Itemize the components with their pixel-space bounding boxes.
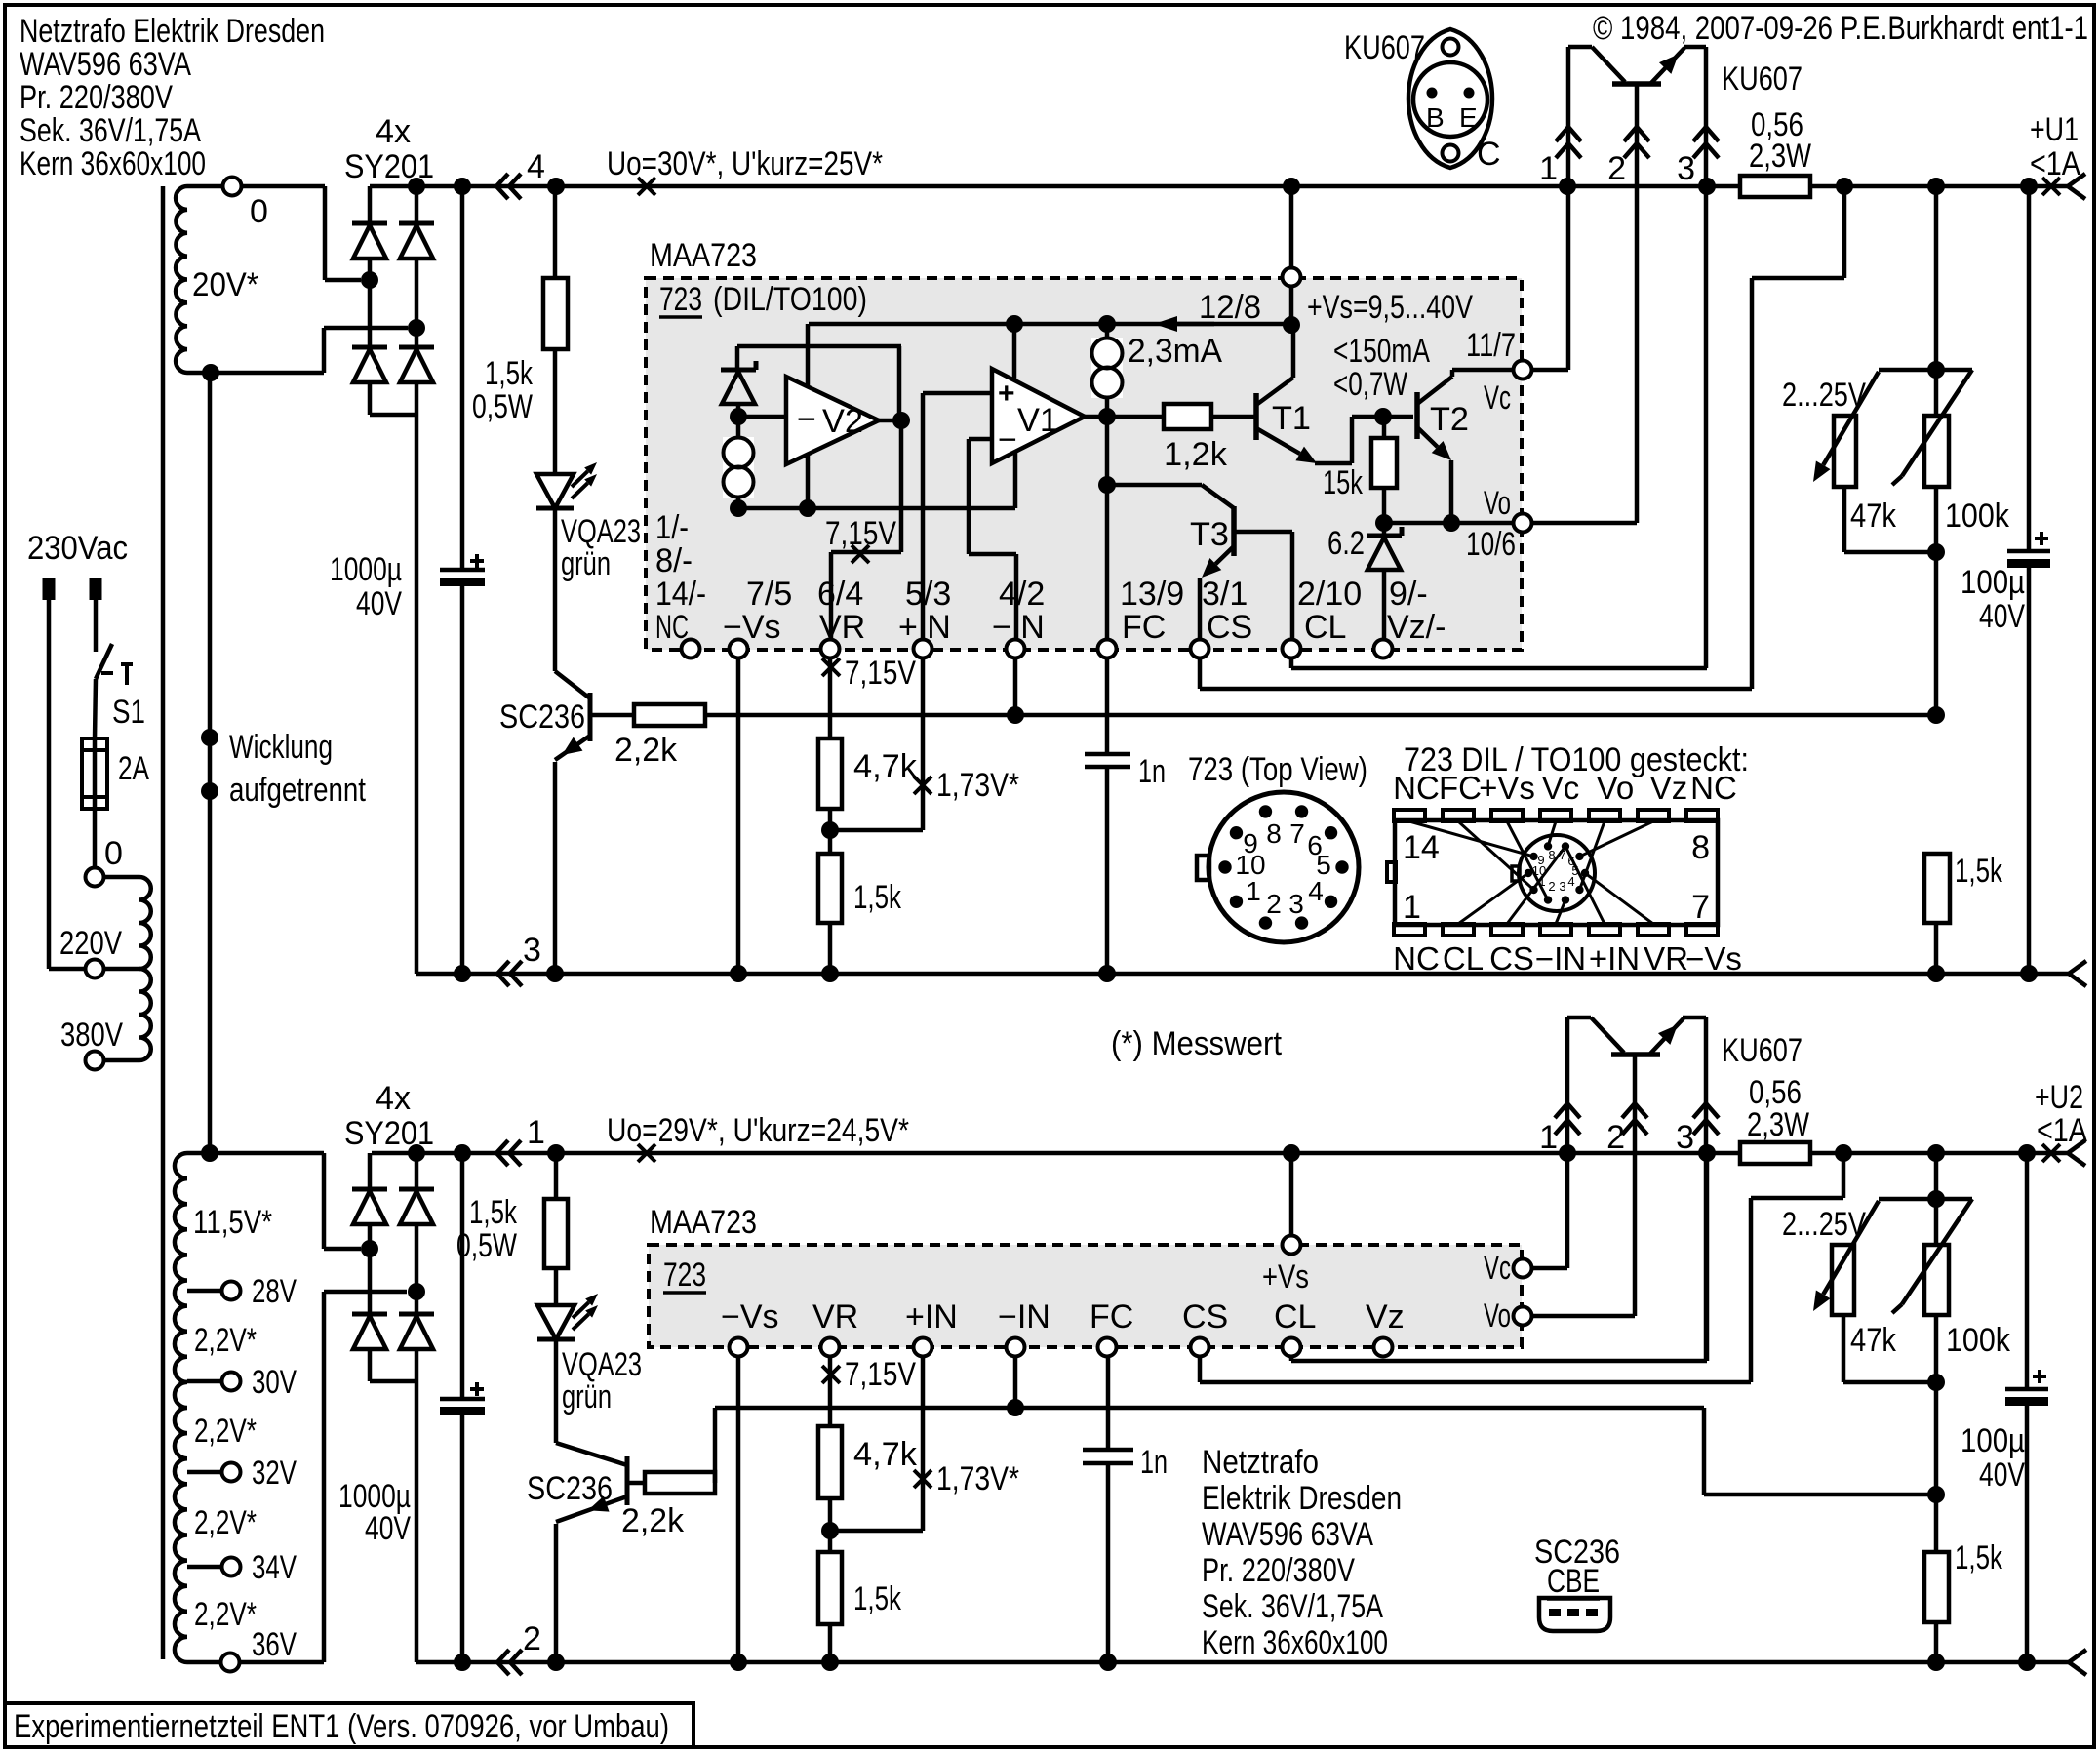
svg-text:5/3: 5/3 [905,576,951,613]
svg-text:<150mA: <150mA [1333,333,1430,370]
svg-text:CL: CL [1274,1298,1316,1335]
svg-text:Vo: Vo [1484,485,1511,522]
svg-text:9/-: 9/- [1389,576,1428,613]
svg-text:−: − [998,421,1017,458]
svg-text:4: 4 [1567,874,1574,889]
svg-text:2,2V*: 2,2V* [194,1596,257,1633]
svg-text:13/9: 13/9 [1120,576,1184,613]
svg-text:KU607: KU607 [1344,29,1425,66]
svg-text:4,7k: 4,7k [853,748,918,785]
svg-text:40V: 40V [356,585,402,622]
svg-text:47k: 47k [1850,498,1897,535]
svg-text:2...25V: 2...25V [1782,1206,1866,1243]
svg-text:1: 1 [1539,150,1558,187]
svg-text:Vc: Vc [1484,379,1511,417]
svg-text:Wicklung: Wicklung [229,729,333,766]
svg-text:2/10: 2/10 [1297,576,1362,613]
svg-text:14: 14 [1403,829,1440,866]
svg-text:MAA723: MAA723 [650,237,757,274]
svg-text:1/-: 1/- [655,509,689,546]
svg-text:C: C [1477,136,1501,173]
svg-text:+U1: +U1 [2030,111,2079,148]
svg-text:+Vs=9,5...40V: +Vs=9,5...40V [1307,289,1473,326]
svg-text:CS: CS [1489,940,1534,977]
svg-text:30V: 30V [252,1364,297,1401]
svg-text:10: 10 [1532,863,1546,878]
svg-text:4x: 4x [376,113,411,150]
svg-text:2,3mA: 2,3mA [1128,333,1222,370]
svg-text:Vz: Vz [1366,1298,1405,1335]
svg-text:4: 4 [1308,876,1324,906]
svg-text:7,15V: 7,15V [825,515,896,552]
svg-text:32V: 32V [252,1455,297,1492]
svg-text:(*) Messwert: (*) Messwert [1111,1025,1282,1062]
svg-text:Vc: Vc [1542,770,1580,806]
svg-text:CS: CS [1207,609,1252,646]
svg-text:1,5k: 1,5k [853,879,902,916]
svg-text:1,5k: 1,5k [469,1194,518,1231]
svg-text:CL: CL [1443,940,1484,977]
svg-text:Netztrafo Elektrik Dresden: Netztrafo Elektrik Dresden [20,13,325,50]
svg-text:8/-: 8/- [655,542,693,579]
svg-text:Sek. 36V/1,75A: Sek. 36V/1,75A [1202,1588,1383,1625]
svg-text:230Vac: 230Vac [27,530,128,567]
svg-text:28V: 28V [252,1273,297,1310]
svg-text:+: + [998,378,1015,410]
svg-text:0: 0 [250,193,268,230]
svg-text:0: 0 [104,835,123,872]
svg-text:723: 723 [663,1256,706,1294]
svg-text:3/1: 3/1 [1202,576,1248,613]
svg-text:2A: 2A [118,750,149,787]
svg-text:100µ: 100µ [1961,564,2025,601]
svg-text:4: 4 [527,148,545,185]
svg-text:−: − [797,401,816,438]
svg-text:V2: V2 [822,403,863,440]
svg-text:+IN: +IN [1589,940,1640,977]
svg-text:FC: FC [1090,1298,1133,1335]
svg-text:NC: NC [1393,940,1440,977]
svg-text:1000µ: 1000µ [330,551,402,588]
svg-text:7: 7 [1559,848,1565,862]
svg-text:3: 3 [1559,879,1565,894]
svg-text:2,3W: 2,3W [1747,1106,1809,1143]
svg-text:1n: 1n [1140,1444,1168,1481]
svg-text:(DIL/TO100): (DIL/TO100) [713,281,867,318]
svg-text:CS: CS [1182,1298,1228,1335]
svg-text:Kern 36x60x100: Kern 36x60x100 [1202,1624,1388,1661]
svg-text:2,2V*: 2,2V* [194,1322,257,1359]
svg-text:Vz: Vz [1650,770,1688,806]
svg-text:aufgetrennt: aufgetrennt [229,772,366,809]
svg-text:Vz/-: Vz/- [1387,609,1446,646]
svg-text:36V: 36V [252,1626,297,1663]
svg-text:WAV596 63VA: WAV596 63VA [1202,1516,1373,1553]
svg-text:Kern 36x60x100: Kern 36x60x100 [20,145,206,182]
svg-text:1: 1 [1403,889,1421,926]
svg-text:Uo=29V*, U'kurz=24,5V*: Uo=29V*, U'kurz=24,5V* [607,1112,909,1149]
svg-text:KU607: KU607 [1722,60,1803,98]
svg-text:100k: 100k [1946,1322,2011,1359]
svg-text:11/7: 11/7 [1466,327,1516,364]
svg-text:T3: T3 [1190,516,1229,553]
svg-text:+U2: +U2 [2035,1079,2083,1116]
svg-text:8: 8 [1548,848,1555,862]
svg-text:7,15V: 7,15V [845,655,916,692]
svg-text:CL: CL [1304,609,1346,646]
svg-text:2,2V*: 2,2V* [194,1413,257,1450]
svg-text:20V*: 20V* [192,266,258,303]
svg-text:2: 2 [523,1620,541,1657]
svg-text:SC236: SC236 [499,698,585,736]
svg-text:Uo=30V*, U'kurz=25V*: Uo=30V*, U'kurz=25V* [607,145,883,182]
svg-text:2: 2 [1607,150,1626,187]
svg-text:8: 8 [1691,829,1710,866]
svg-text:Pr. 220/380V: Pr. 220/380V [20,79,173,116]
svg-text:1,5k: 1,5k [853,1580,902,1617]
svg-text:T1: T1 [1272,400,1311,437]
svg-text:40V: 40V [1979,598,2025,635]
svg-text:7: 7 [1691,889,1710,926]
svg-text:12/8: 12/8 [1199,289,1261,326]
svg-text:−IN: −IN [1535,940,1586,977]
svg-text:1n: 1n [1138,753,1166,790]
svg-text:VR: VR [812,1298,858,1335]
svg-text:100k: 100k [1945,498,2010,535]
svg-text:1: 1 [1246,876,1261,906]
svg-text:1,73V*: 1,73V* [936,767,1019,804]
svg-text:E: E [1459,102,1478,133]
svg-text:1,5k: 1,5k [1955,853,2003,890]
svg-text:723 (Top View): 723 (Top View) [1188,751,1367,788]
svg-text:7/5: 7/5 [746,576,792,613]
svg-text:S1: S1 [112,694,145,731]
svg-text:<1A: <1A [2037,1112,2087,1149]
svg-text:2: 2 [1606,1119,1625,1156]
svg-text:2...25V: 2...25V [1782,377,1866,414]
svg-text:100µ: 100µ [1961,1422,2025,1459]
svg-text:0,5W: 0,5W [472,388,533,425]
svg-text:40V: 40V [1979,1456,2025,1494]
svg-text:4,7k: 4,7k [853,1436,918,1473]
svg-text:34V: 34V [252,1549,297,1586]
svg-text:10/6: 10/6 [1466,526,1516,563]
svg-text:14/-: 14/- [655,576,706,613]
svg-text:FC: FC [1122,609,1166,646]
svg-text:7,15V: 7,15V [845,1356,916,1393]
svg-text:1,73V*: 1,73V* [936,1460,1019,1497]
svg-text:VR: VR [1644,940,1688,977]
svg-text:−Vs: −Vs [1685,940,1742,977]
svg-text:+IN: +IN [905,1298,958,1335]
svg-text:Vc: Vc [1484,1250,1511,1287]
svg-text:SC236: SC236 [527,1470,613,1507]
svg-text:Vo: Vo [1597,770,1635,806]
svg-text:3: 3 [1677,150,1695,187]
svg-text:MAA723: MAA723 [650,1204,757,1241]
svg-text:+Vs: +Vs [1479,770,1535,806]
svg-text:0,5W: 0,5W [456,1227,517,1264]
svg-text:380V: 380V [60,1017,123,1054]
svg-text:T2: T2 [1430,401,1469,438]
svg-text:2,2k: 2,2k [614,732,678,769]
svg-text:6/4: 6/4 [817,576,863,613]
svg-text:723: 723 [659,281,702,318]
svg-text:3: 3 [1288,889,1304,919]
svg-text:8: 8 [1266,818,1282,849]
svg-text:4x: 4x [376,1080,411,1117]
svg-text:47k: 47k [1850,1322,1897,1359]
svg-text:© 1984, 2007-09-26 P.E.Burkhar: © 1984, 2007-09-26 P.E.Burkhardt ent1-1 [1593,10,2088,47]
svg-text:NC: NC [1393,770,1440,806]
svg-text:+Vs: +Vs [1262,1258,1309,1296]
svg-text:Experimentiernetzteil ENT1 (Ve: Experimentiernetzteil ENT1 (Vers. 070926… [14,1708,669,1745]
svg-text:7: 7 [1289,818,1305,849]
svg-text:KU607: KU607 [1722,1032,1803,1069]
svg-text:15k: 15k [1323,464,1364,501]
svg-text:<0,7W: <0,7W [1333,366,1407,403]
svg-text:grün: grün [561,545,611,582]
svg-text:220V: 220V [59,925,122,962]
svg-text:CBE: CBE [1547,1563,1600,1600]
svg-text:1: 1 [527,1114,545,1151]
svg-text:1,2k: 1,2k [1164,436,1228,473]
svg-text:4/2: 4/2 [999,576,1045,613]
svg-text:11,5V*: 11,5V* [193,1204,272,1241]
svg-text:<1A: <1A [2030,145,2080,182]
svg-text:1,5k: 1,5k [485,355,534,392]
svg-text:Netztrafo: Netztrafo [1202,1444,1319,1481]
svg-text:3: 3 [523,932,541,969]
svg-text:Sek. 36V/1,75A: Sek. 36V/1,75A [20,112,201,149]
svg-text:Vo: Vo [1484,1297,1511,1335]
svg-text:−IN: −IN [998,1298,1050,1335]
svg-text:Pr. 220/380V: Pr. 220/380V [1202,1552,1355,1589]
svg-text:1,5k: 1,5k [1955,1539,2003,1576]
svg-text:10: 10 [1235,850,1265,880]
svg-text:NC: NC [1690,770,1737,806]
svg-text:FC: FC [1439,770,1482,806]
svg-text:2,3W: 2,3W [1749,138,1811,175]
svg-text:6.2: 6.2 [1327,525,1365,562]
svg-text:−Vs: −Vs [721,1298,779,1335]
svg-text:3: 3 [1676,1119,1694,1156]
svg-text:grün: grün [562,1378,612,1415]
svg-text:2: 2 [1266,889,1282,919]
svg-text:B: B [1426,102,1445,133]
svg-text:2,2k: 2,2k [621,1502,685,1539]
svg-text:40V: 40V [365,1510,411,1547]
svg-text:2: 2 [1548,879,1555,894]
svg-text:WAV596 63VA: WAV596 63VA [20,46,191,83]
svg-text:1: 1 [1539,1119,1558,1156]
svg-text:Elektrik Dresden: Elektrik Dresden [1202,1480,1402,1517]
svg-text:2,2V*: 2,2V* [194,1504,257,1541]
svg-text:V1: V1 [1017,402,1058,439]
